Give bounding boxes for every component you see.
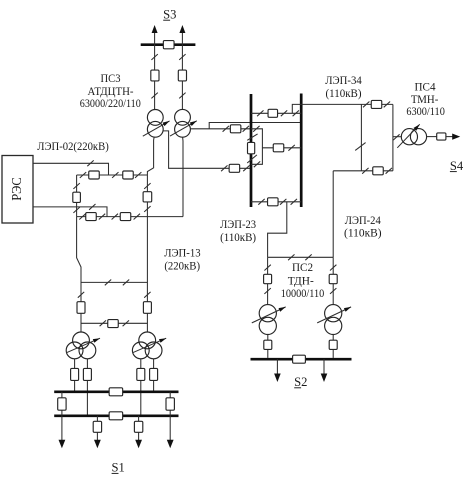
disconnector slash tie mid [281, 110, 287, 116]
disconnector slash ЛЭП-34 top run left [363, 102, 369, 108]
breaker ЛЭП-34 bottom [373, 167, 384, 175]
tap-changer arrow S1-2 [132, 338, 166, 353]
disconnector slash ПС2 right lower [330, 288, 336, 294]
disconnector slash ПС2 bridge right [305, 254, 311, 260]
breaker S1 bridge-2 [108, 320, 119, 328]
breaker ПС4 output [437, 133, 446, 140]
svg-text:РЭС: РЭС [9, 177, 24, 201]
disconnector slash bottom tie right [291, 199, 297, 205]
wire ПС4 transformer tap [393, 136, 402, 138]
transformer S1-1 winding 2 [66, 342, 83, 359]
tap-changer arrow ПС2-2 [317, 307, 351, 323]
svg-text:6300/110: 6300/110 [406, 104, 445, 118]
wire ПС4 to S4 [446, 136, 453, 138]
wire T1 bottom lead [147, 137, 154, 175]
transformer ПС4 winding 1 [401, 129, 417, 145]
transformer S1-1 winding 1 [73, 332, 90, 349]
wire transfer bypass [251, 129, 262, 165]
disconnector slash right of node [112, 172, 118, 178]
breaker S1 left chain [77, 302, 85, 314]
arrowhead S1 feeder 1 [59, 440, 66, 449]
wire S1 jumper right [169, 392, 171, 416]
tap-changer arrow ПС4 [397, 124, 419, 148]
disconnector slash S3-T2 lower [179, 93, 185, 99]
autotransformer T2 ПС3 winding 1 [175, 109, 191, 125]
breaker S1 feeder 2 [93, 421, 101, 432]
transformer ПС2-1 winding 1 [259, 305, 276, 322]
disconnector slash transfer branch [288, 145, 294, 151]
wire S1 feeder 1 [61, 416, 63, 440]
breaker ПС2 left [264, 274, 272, 283]
wire ЛЭП-13 right circuit [146, 217, 148, 333]
bus S2 [251, 358, 352, 361]
disconnector slash T1-output at bus [243, 165, 249, 171]
svg-text:ЛЭП-13: ЛЭП-13 [164, 246, 200, 260]
arrowhead S1 feeder 3 [135, 440, 142, 449]
transformer ПС4 winding 2 [410, 129, 426, 145]
disconnector slash ЛЭП-34 bottom right [386, 168, 392, 174]
wire ПС2 right chain upper [332, 257, 334, 304]
wire bottom tie row [251, 201, 301, 203]
wire T2 110kV output row [190, 128, 251, 130]
breaker S1-2 lead a [137, 368, 145, 380]
tap-changer arrow T2 [170, 121, 197, 136]
arrowhead S1 feeder 2 [94, 440, 101, 449]
disconnector slash T2-output [223, 126, 229, 132]
wire S3 to T2 [181, 45, 183, 110]
breaker bus-tie [268, 109, 278, 117]
wire S1-2 lead b [153, 359, 155, 391]
disconnector slash bottom tie left [258, 199, 264, 205]
breaker S3-T2 [178, 70, 186, 81]
disconnector slash on jumper top [73, 183, 79, 189]
wire junction to T2 lead [147, 216, 183, 218]
wire ПС2 left chain upper [267, 257, 269, 304]
disconnector slash S3-T1 upper [151, 54, 157, 60]
wire S1 feeder 3 upper [138, 416, 140, 421]
breaker T1-output [229, 164, 240, 172]
wire ЛЭП-02 circuit-1 horizontal run [77, 174, 148, 176]
wire S1 feeder 4 [169, 416, 171, 440]
wire ПС2 right chain lower [332, 335, 334, 358]
disconnector slash on ЛЭП-02 circuit-1 [87, 160, 93, 166]
wire S1 feeder 2 upper [96, 416, 98, 421]
disconnector slash S1 left chain [78, 292, 84, 298]
svg-text:S1: S1 [112, 461, 125, 475]
disconnector slash tie left [257, 110, 263, 116]
wire S1-2 lead a [140, 359, 142, 416]
breaker bottom tie [268, 198, 279, 206]
disconnector slash ЛЭП-34 top run right [384, 102, 390, 108]
svg-text:ЛЭП-34: ЛЭП-34 [325, 73, 362, 87]
bus S1 section B [54, 414, 178, 417]
wire ПС3 220kV chain [146, 175, 148, 217]
breaker ПС2 right [329, 274, 337, 283]
svg-text:10000/110: 10000/110 [281, 286, 325, 300]
disconnector slash ПС2 bridge left [288, 254, 294, 260]
disconnector slash on left bus (lower) [247, 155, 257, 163]
breaker S1 jumper left [58, 398, 66, 410]
breaker C on ЛЭП-02 circuit-2 [86, 213, 97, 221]
disconnector slash on jumper bottom [73, 207, 79, 213]
disconnector slash bottom tie mid [280, 199, 286, 205]
wire ПС4 entry vertical [392, 104, 394, 170]
breaker S1-1 lead b [83, 368, 91, 380]
disconnector slash ПС4 tap [393, 134, 399, 140]
disconnector slash on ЛЭП-02 circuit-2 [89, 204, 95, 210]
bus S1 section A [54, 390, 178, 393]
tap-changer arrow S1-1 [66, 338, 100, 353]
wire ЛЭП-34 bottom run [333, 170, 393, 172]
wire ЛЭП-24 line [332, 171, 334, 257]
breaker on S2 bus [293, 355, 306, 363]
wire ЛЭП-34 line segment [360, 104, 362, 170]
wire S1-1 lead a [74, 359, 76, 391]
wire S2 feeder 1 [276, 359, 278, 374]
transformer ПС2-2 winding 1 [325, 305, 342, 322]
disconnector slash T1-output [221, 165, 227, 171]
arrowhead S3 feeder right [179, 25, 185, 33]
wire S1 jumper left [61, 392, 63, 416]
wire T2 output jog to bypass row [209, 123, 301, 129]
svg-text:(110кВ): (110кВ) [220, 230, 256, 244]
svg-text:S3: S3 [163, 7, 176, 21]
disconnector slash S1 bridge-1 left [105, 280, 111, 286]
breaker on jumper [73, 192, 81, 202]
disconnector slash right of node 2 [112, 214, 118, 220]
autotransformer T2 ПС3 winding 2 [175, 121, 191, 137]
svg-text:63000/220/110: 63000/220/110 [80, 96, 141, 110]
breaker S1-1 lead a [71, 368, 79, 380]
disconnector slash right of breaker C [99, 214, 105, 220]
disconnector slash ПС2 right upper [330, 265, 336, 271]
disconnector slash on ПС3 chain top [144, 183, 150, 189]
wire S2 feeder 2 [323, 359, 325, 374]
breaker ПС2-2 LV [329, 340, 337, 349]
wire transfer branch to right bus [262, 147, 301, 149]
arrowhead S2 feeder 2 [321, 374, 328, 383]
wire ЛЭП-02 circuit-2 from РЭС [33, 207, 107, 217]
disconnector slash S1 bridge-2 left [100, 320, 106, 326]
disconnector slash T2-output at bus [243, 126, 249, 132]
tap-changer arrow T1 [143, 121, 170, 136]
breaker ПС2-1 LV [264, 340, 272, 349]
disconnector slash before ПС3 node [135, 172, 141, 178]
wire S1 bridge 1 [81, 281, 147, 283]
РЭС distribution-grid source box [2, 156, 33, 224]
breaker transfer branch [273, 144, 284, 152]
wire ЛЭП-02 circuit-1 from РЭС [33, 163, 109, 175]
wire ПС4 output [427, 136, 437, 138]
wire S1 feeder 2 lower [96, 432, 98, 440]
autotransformer T1 ПС3 winding 2 [147, 121, 163, 137]
transformer ПС2-1 winding 2 [259, 317, 276, 334]
svg-text:ПС2: ПС2 [292, 260, 313, 274]
transformer S1-2 winding 3 [145, 342, 162, 359]
disconnector slash S1 bridge-2 right [123, 320, 129, 326]
disconnector slash S1 right chain [144, 292, 150, 298]
transformer ПС2-2 winding 2 [325, 317, 342, 334]
wire bus-tie row [251, 112, 301, 114]
breaker on ПС3 220kV chain [143, 192, 152, 202]
disconnector slash S3-T1 lower [151, 93, 157, 99]
svg-text:(110кВ): (110кВ) [326, 86, 362, 100]
disconnector slash before junction [134, 214, 140, 220]
wire ЛЭП-13 left circuit [77, 217, 81, 333]
breaker T2-output [230, 125, 241, 133]
arrowhead S3 feeder left [152, 25, 158, 33]
wire ЛЭП-23 line [268, 202, 287, 257]
disconnector slash tie right [293, 110, 299, 116]
wire ПС2 left chain lower [267, 335, 269, 358]
disconnector slash on ЛЭП-34 line [355, 143, 365, 151]
svg-text:S2: S2 [294, 375, 307, 389]
disconnector slash ЛЭП-34 bottom left [362, 168, 368, 174]
wire tie jog to ЛЭП-34 [292, 104, 393, 113]
wire jumper between circuits [76, 175, 78, 217]
arrowhead to S4 [452, 134, 460, 140]
breaker ЛЭП-34 top [371, 100, 382, 108]
autotransformer T1 ПС3 winding 1 [147, 110, 163, 126]
wire T1 110kV output [163, 131, 251, 168]
breaker S3-T1 [151, 70, 159, 81]
svg-text:(110кВ): (110кВ) [344, 226, 382, 240]
breaker on S3 bus [163, 41, 174, 49]
disconnector slash transfer top [253, 126, 259, 132]
breaker on S1 bus B [109, 412, 123, 420]
transformer S1-2 winding 2 [132, 342, 149, 359]
breaker A on ЛЭП-02 circuit-1 [89, 171, 100, 179]
breaker S1 jumper right [166, 398, 174, 410]
wire ПС2 bridge [268, 256, 334, 258]
disconnector slash ПС2 left upper [264, 265, 270, 271]
breaker S1 right chain [143, 302, 151, 314]
disconnector slash transfer bottom [254, 161, 260, 167]
breaker S1 feeder 3 [134, 421, 142, 432]
wire ЛЭП-02 circuit-2 horizontal run [77, 216, 148, 218]
disconnector slash ПС2 left lower [264, 288, 270, 294]
svg-text:(220кВ): (220кВ) [164, 259, 200, 273]
bus sectionalizing breaker on left bus [248, 142, 255, 153]
disconnector slash left of breaker A [80, 172, 86, 178]
wire T2 bottom lead [182, 137, 184, 217]
svg-text:S4: S4 [450, 159, 464, 173]
breaker S1-2 lead b [150, 368, 158, 380]
disconnector slash left of breaker C [79, 214, 85, 220]
wire S3 to T1 [154, 45, 156, 110]
wire S3 feeder left with arrow [154, 33, 156, 45]
breaker D on ЛЭП-02 circuit-2 [120, 213, 131, 221]
disconnector slash on ПС3 chain bottom [144, 206, 150, 212]
wire S1-1 lead b [86, 359, 88, 416]
wire S1 bridge 2 [81, 322, 147, 324]
wire S1 feeder 3 lower [138, 432, 140, 440]
wire S3 feeder right [181, 33, 183, 45]
transformer S1-1 winding 3 [79, 342, 96, 359]
bus S3 [141, 43, 196, 46]
arrowhead S1 feeder 4 [167, 440, 174, 449]
transformer S1-2 winding 1 [139, 332, 156, 349]
arrowhead S2 feeder 1 [274, 374, 281, 383]
svg-text:ЛЭП-02(220кВ): ЛЭП-02(220кВ) [37, 139, 109, 153]
disconnector slash on left bus (upper) [247, 134, 257, 140]
breaker on S1 bus A [109, 388, 123, 396]
disconnector slash S1 bridge-1 right [123, 280, 129, 286]
disconnector slash S3-T2 upper [179, 54, 185, 60]
bus 110kV left section [250, 94, 253, 207]
bus 110kV right [300, 94, 303, 208]
tap-changer arrow ПС2-1 [252, 307, 286, 323]
breaker B on ЛЭП-02 circuit-1 [123, 171, 134, 179]
